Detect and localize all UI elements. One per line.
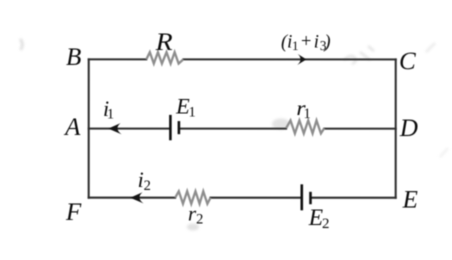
svg-text:B: B xyxy=(66,44,81,71)
svg-text:E: E xyxy=(308,205,323,231)
svg-text:R: R xyxy=(155,27,174,56)
svg-text:2: 2 xyxy=(196,212,203,228)
svg-text:1: 1 xyxy=(188,104,195,120)
svg-text:+: + xyxy=(300,32,312,52)
svg-text:E: E xyxy=(402,187,418,214)
svg-text:1: 1 xyxy=(107,107,114,123)
svg-text:2: 2 xyxy=(322,216,330,232)
svg-text:1: 1 xyxy=(304,106,311,122)
svg-text:A: A xyxy=(63,114,81,141)
svg-text:): ) xyxy=(323,33,330,53)
svg-text:(i: (i xyxy=(281,33,292,53)
svg-text:F: F xyxy=(65,199,82,226)
svg-text:D: D xyxy=(399,115,418,142)
svg-text:1: 1 xyxy=(292,38,299,53)
svg-text:C: C xyxy=(399,48,416,75)
svg-text:i: i xyxy=(314,33,319,53)
svg-text:2: 2 xyxy=(144,178,151,194)
